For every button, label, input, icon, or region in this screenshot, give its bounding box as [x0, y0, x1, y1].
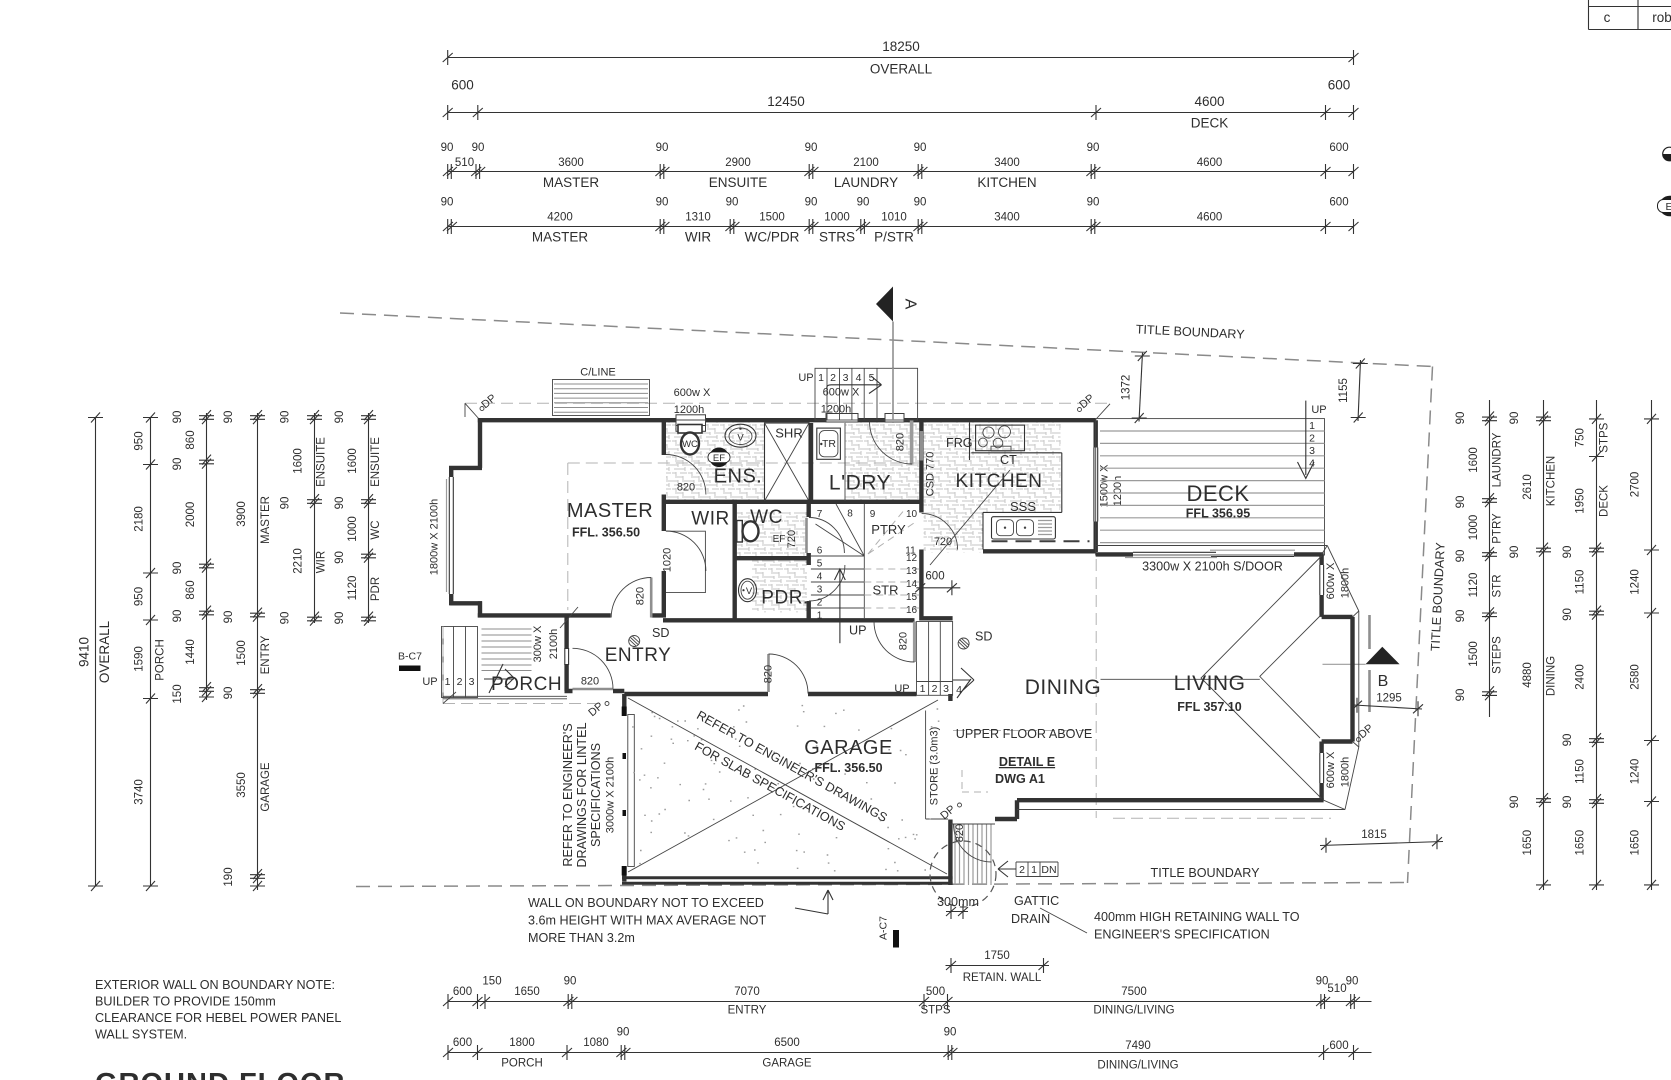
svg-text:4: 4 [817, 572, 823, 583]
tile hatch ensuite floor [666, 423, 764, 502]
garage east wall + store [926, 694, 951, 885]
svg-text:PDR: PDR [370, 577, 382, 601]
svg-text:4600: 4600 [1194, 94, 1224, 109]
svg-text:A-C7: A-C7 [878, 916, 890, 940]
bottom dim row 600/1800 PORCH/1080/90/6500 GARAGE/90/7490 DINING-LIVING/600 [443, 1027, 1372, 1072]
title block table fragment (top right) [1589, 0, 1671, 30]
kitchen east wall w/ window [1094, 420, 1124, 552]
left dim chain 90/1600 ENSUITE/90/2210 WIR/90 [280, 410, 328, 625]
svg-text:2100h: 2100h [548, 629, 560, 660]
svg-text:150: 150 [172, 684, 184, 703]
fridge niche [946, 423, 973, 461]
master bay walls [450, 466, 482, 606]
wc west wall [733, 500, 737, 621]
kitchen diagonal (section line) [930, 470, 1010, 565]
svg-text:2: 2 [932, 683, 938, 695]
laundry door swing [870, 420, 914, 464]
labels ensuite window [674, 387, 711, 416]
detail circle (dashed) [930, 841, 996, 907]
DP marker kitchen corner [1077, 392, 1096, 411]
svg-text:90: 90 [617, 1027, 630, 1039]
svg-text:820: 820 [581, 676, 599, 688]
svg-text:12450: 12450 [767, 94, 805, 109]
svg-text:WALL ON BOUNDARY NOT TO EXCEED: WALL ON BOUNDARY NOT TO EXCEED [528, 896, 764, 910]
svg-text:90: 90 [857, 197, 870, 209]
detail E note [962, 755, 1055, 792]
dim row 600 12450 4600 DECK 600 [443, 78, 1359, 131]
svg-text:OVERALL: OVERALL [870, 62, 933, 77]
wc door 720 swing [786, 518, 844, 554]
svg-text:FFL. 356.50: FFL. 356.50 [572, 526, 640, 540]
svg-text:90: 90 [1455, 412, 1467, 425]
DP marker entry/garage [586, 700, 609, 719]
svg-text:2400: 2400 [1575, 664, 1587, 690]
svg-text:4600: 4600 [1197, 212, 1223, 224]
svg-text:9410: 9410 [77, 637, 92, 667]
svg-text:90: 90 [334, 497, 346, 510]
garage internal door 820 swing [763, 654, 809, 694]
garage concrete dot hatch [632, 706, 939, 871]
svg-text:90: 90 [1509, 412, 1521, 425]
stair bottom wall [663, 618, 915, 622]
svg-text:STR: STR [1492, 575, 1504, 598]
svg-text:ENSUITE: ENSUITE [316, 437, 328, 487]
svg-text:LAUNDRY: LAUNDRY [1492, 432, 1504, 487]
svg-text:600w X: 600w X [1325, 751, 1337, 788]
svg-text:9: 9 [870, 509, 876, 520]
svg-text:FFL 357.10: FFL 357.10 [1177, 700, 1241, 714]
svg-text:1800w X 2100h: 1800w X 2100h [429, 499, 441, 575]
svg-text:MORE THAN 3.2m: MORE THAN 3.2m [528, 931, 635, 945]
svg-text:1: 1 [1309, 420, 1315, 432]
svg-text:600: 600 [1328, 78, 1351, 93]
living east wall upper w/ window [1320, 554, 1352, 617]
laundry west wall [809, 423, 813, 501]
svg-text:SPECIFICATIONS: SPECIFICATIONS [589, 743, 603, 847]
svg-text:3.6m HEIGHT WITH MAX AVERAGE N: 3.6m HEIGHT WITH MAX AVERAGE NOT [528, 914, 766, 928]
svg-text:90: 90 [334, 612, 346, 625]
svg-text:90: 90 [280, 411, 292, 424]
svg-text:1240: 1240 [1630, 759, 1642, 785]
svg-text:600w X: 600w X [823, 387, 860, 399]
section marker B (filled triangle + line) [1323, 615, 1400, 712]
ensuite door 820 swing [666, 455, 706, 495]
svg-text:TR: TR [822, 438, 836, 450]
svg-text:90: 90 [1455, 610, 1467, 623]
svg-text:FFL 356.95: FFL 356.95 [1186, 507, 1250, 521]
room label living [1174, 672, 1246, 714]
svg-text:FRG: FRG [946, 436, 973, 450]
right dim chain 750 STPS/1950 DECK/90/1150/90/2400/90/1150/90/1650 [1562, 400, 1611, 890]
svg-text:90: 90 [564, 976, 577, 988]
dim 1155 (boundary to deck right) [1338, 359, 1368, 423]
svg-text:PTRY: PTRY [1492, 513, 1504, 544]
svg-text:2: 2 [1019, 864, 1025, 876]
svg-text:CSD 770: CSD 770 [925, 452, 937, 497]
roof eave dashed line top [465, 403, 1110, 419]
svg-text:7500: 7500 [1121, 986, 1147, 998]
upper floor above dashed outline [568, 463, 1331, 818]
svg-text:UP: UP [1311, 404, 1326, 416]
dining north wall + sliding door [1096, 550, 1324, 573]
svg-text:DINING/LIVING: DINING/LIVING [1093, 1005, 1174, 1017]
svg-text:MASTER: MASTER [532, 230, 589, 245]
svg-text:1200h: 1200h [674, 404, 705, 416]
svg-text:SD: SD [975, 630, 993, 644]
svg-text:90: 90 [223, 687, 235, 700]
svg-text:1000: 1000 [1468, 515, 1480, 541]
steps garage to dining hatch + door [950, 824, 995, 885]
svg-text:PTRY: PTRY [871, 522, 906, 537]
svg-text:18250: 18250 [882, 39, 920, 54]
svg-text:3: 3 [469, 676, 475, 688]
kitchen west wall w/ csd + pantry door [919, 420, 952, 618]
left dim chain 9410 OVERALL [77, 413, 113, 892]
svg-text:13: 13 [906, 566, 918, 577]
north symbol (half-filled circle, clipped at edge) [1663, 147, 1671, 161]
svg-text:3: 3 [843, 372, 849, 384]
svg-text:1: 1 [920, 683, 926, 695]
svg-text:2: 2 [1309, 433, 1315, 445]
svg-text:950: 950 [134, 431, 146, 450]
svg-text:90: 90 [656, 142, 669, 154]
svg-text:1590: 1590 [134, 646, 146, 672]
svg-text:600: 600 [1329, 142, 1348, 154]
dim 1295 (living wall to boundary) [1352, 693, 1423, 717]
smoke detector entry [629, 626, 670, 647]
tile hatch wc floor [737, 512, 807, 556]
svg-text:1372: 1372 [1121, 375, 1133, 401]
porch floor hatch [482, 629, 532, 671]
svg-text:STPS: STPS [1599, 422, 1611, 452]
deck outline + planks [1096, 419, 1325, 555]
svg-text:7070: 7070 [734, 986, 760, 998]
svg-text:REFER TO ENGINEER'S: REFER TO ENGINEER'S [561, 723, 575, 866]
svg-text:600: 600 [453, 986, 472, 998]
svg-text:WIR: WIR [316, 551, 328, 573]
svg-text:ENTRY: ENTRY [605, 645, 672, 666]
svg-text:DINING: DINING [1025, 676, 1102, 699]
svg-text:GARAGE: GARAGE [762, 1058, 812, 1070]
svg-text:DETAIL E: DETAIL E [999, 755, 1055, 769]
tile hatch kitchen floor [924, 423, 1061, 513]
exterior wall top [478, 418, 1096, 422]
garage slab diagonals + note [628, 698, 947, 874]
svg-text:90: 90 [1087, 197, 1100, 209]
svg-text:WC: WC [682, 439, 698, 450]
svg-text:DINING: DINING [1546, 656, 1558, 696]
smoke detector hall [958, 630, 992, 650]
vanity V pdr [739, 579, 757, 602]
svg-text:B: B [1378, 673, 1389, 690]
svg-text:150: 150 [482, 976, 501, 988]
svg-text:3000w X 2100h: 3000w X 2100h [605, 757, 617, 833]
ensuite/laundry south wall [662, 500, 922, 504]
kitchen island dashed overhang [992, 540, 1090, 542]
svg-text:2: 2 [817, 598, 823, 609]
svg-text:LAUNDRY: LAUNDRY [834, 175, 898, 190]
svg-text:1080: 1080 [583, 1037, 609, 1049]
svg-text:DECK: DECK [1599, 485, 1611, 517]
svg-text:c: c [1604, 10, 1611, 25]
retaining wall note [1040, 908, 1300, 942]
svg-text:ENTRY: ENTRY [260, 635, 272, 674]
roof ridge chevrons living [1101, 556, 1322, 798]
svg-text:SSS: SSS [1010, 499, 1036, 514]
svg-text:3740: 3740 [134, 779, 146, 805]
garage west wall w/ garage door [605, 694, 635, 882]
wir closet outline [666, 531, 706, 592]
svg-text:6500: 6500 [774, 1037, 800, 1049]
svg-text:ENTRY: ENTRY [728, 1005, 767, 1017]
svg-text:15: 15 [906, 592, 918, 603]
svg-text:1155: 1155 [1338, 378, 1350, 403]
svg-text:PORCH: PORCH [501, 1058, 543, 1070]
svg-text:1000: 1000 [347, 516, 359, 542]
section A cut line through steps [892, 368, 894, 420]
right dim chain 2700/1240/2580/1240/1650 [1630, 400, 1660, 890]
svg-text:SHR: SHR [775, 426, 802, 441]
svg-text:KITCHEN: KITCHEN [977, 175, 1036, 190]
svg-text:ENS.: ENS. [714, 466, 763, 488]
svg-text:1750: 1750 [984, 950, 1010, 962]
svg-text:WC: WC [370, 520, 382, 539]
tile hatch laundry floor [845, 423, 920, 502]
svg-text:1: 1 [1031, 864, 1037, 876]
DP marker living bay [1356, 722, 1375, 741]
svg-text:4200: 4200 [547, 212, 573, 224]
stair upper run dashed treads [864, 569, 919, 608]
left dim chain 90/3900 MASTER/90/1500 ENTRY/90/3550 GARAGE/190 [223, 410, 272, 891]
svg-text:1650: 1650 [514, 986, 540, 998]
svg-text:90: 90 [1509, 546, 1521, 559]
svg-text:STORE (3.0m3): STORE (3.0m3) [929, 727, 941, 806]
svg-text:510: 510 [1327, 983, 1346, 995]
svg-text:KITCHEN: KITCHEN [956, 471, 1043, 492]
svg-text:KITCHEN: KITCHEN [1546, 456, 1558, 506]
svg-text:ENSUITE: ENSUITE [370, 437, 382, 487]
svg-text:90: 90 [172, 610, 184, 623]
svg-text:C/LINE: C/LINE [580, 367, 615, 379]
svg-text:90: 90 [656, 197, 669, 209]
svg-text:400mm HIGH RETAINING WALL TO: 400mm HIGH RETAINING WALL TO [1094, 910, 1300, 924]
svg-text:90: 90 [441, 142, 454, 154]
svg-text:1: 1 [445, 676, 451, 688]
laundry tiled edge [844, 423, 846, 501]
svg-text:1500: 1500 [1468, 641, 1480, 667]
left dim chain 90/1600 ENSUITE/90/1000 WC/90/1120 PDR/90 [334, 410, 382, 625]
stair west wall w/ wc+pdr doors [807, 500, 811, 622]
svg-text:1500w X: 1500w X [1099, 464, 1111, 507]
svg-text:E: E [1665, 201, 1671, 213]
garage boundary wall note [528, 890, 833, 945]
svg-text:DN: DN [1041, 864, 1056, 876]
dim row 90/510/3600 MASTER/2900 ENSUITE/2100 LAUNDRY/3400 KITCHEN/4600/600 [441, 142, 1359, 190]
svg-text:UP: UP [422, 676, 437, 688]
svg-text:90: 90 [172, 562, 184, 575]
svg-text:1150: 1150 [1575, 570, 1587, 595]
svg-text:EF: EF [773, 534, 786, 545]
kitchen bench edges [971, 453, 1062, 550]
svg-text:2610: 2610 [1522, 474, 1534, 500]
svg-text:90: 90 [1346, 976, 1359, 988]
svg-text:90: 90 [1562, 546, 1574, 559]
svg-text:2700: 2700 [1630, 472, 1642, 498]
svg-text:90: 90 [223, 611, 235, 624]
svg-text:CT: CT [1000, 453, 1017, 467]
garage south boundary wall (double) [622, 878, 953, 884]
svg-text:820: 820 [898, 632, 910, 650]
svg-text:600: 600 [925, 571, 944, 583]
svg-text:90: 90 [172, 411, 184, 424]
svg-text:90: 90 [1455, 550, 1467, 563]
svg-text:820: 820 [895, 433, 907, 451]
svg-text:1800h: 1800h [1340, 757, 1352, 788]
svg-text:1800: 1800 [509, 1037, 535, 1049]
svg-text:90: 90 [1562, 608, 1574, 621]
svg-text:12: 12 [906, 553, 918, 564]
stair treads lower run [811, 556, 864, 608]
svg-text:90: 90 [726, 197, 739, 209]
vanity V ensuite [725, 424, 756, 447]
south wall dining/living [1017, 798, 1324, 802]
tile hatch pdr floor [752, 561, 807, 613]
cooktop CT [976, 425, 1025, 467]
external entry steps box [798, 368, 917, 420]
svg-text:3400: 3400 [994, 157, 1020, 169]
svg-text:DRAIN: DRAIN [1011, 912, 1050, 926]
svg-text:860: 860 [185, 430, 197, 449]
hall door to dining swing [874, 622, 916, 663]
svg-text:1600: 1600 [293, 448, 305, 474]
svg-text:EXTERIOR WALL ON BOUNDARY NOTE: EXTERIOR WALL ON BOUNDARY NOTE: [95, 978, 335, 992]
svg-text:TITLE BOUNDARY: TITLE BOUNDARY [1151, 866, 1261, 880]
kitchen south bench front [983, 549, 1096, 553]
svg-text:P/STR: P/STR [874, 230, 914, 245]
svg-text:820: 820 [954, 824, 966, 842]
svg-text:90: 90 [172, 458, 184, 471]
master bay window 1800w [429, 477, 454, 594]
master door 820 swing [611, 578, 651, 618]
svg-text:1310: 1310 [685, 212, 711, 224]
svg-text:1020: 1020 [662, 548, 674, 572]
laundry tub TR [817, 428, 841, 459]
dim 600 stair opening [915, 571, 960, 596]
stair up arrow [835, 569, 867, 643]
svg-text:300mm: 300mm [937, 895, 979, 909]
left dim chain 90/860/90/2000/90/860/90/1440/150 [172, 410, 214, 703]
internal steps to dining 1 2 3 [894, 622, 974, 699]
svg-text:WC/PDR: WC/PDR [745, 230, 800, 245]
section marker A (filled flag + line) [876, 287, 919, 369]
porch south edge [443, 627, 567, 699]
svg-text:2: 2 [830, 372, 836, 384]
title boundary top (dashed) [340, 313, 1433, 367]
window sills at external steps [826, 414, 904, 423]
svg-text:6: 6 [817, 546, 823, 557]
electrical symbol E (clipped at edge) [1658, 196, 1671, 217]
svg-text:1650: 1650 [1630, 830, 1642, 856]
svg-text:3: 3 [1309, 445, 1315, 457]
svg-text:1650: 1650 [1522, 830, 1534, 856]
svg-text:1010: 1010 [881, 212, 907, 224]
svg-text:UP: UP [894, 683, 909, 695]
svg-text:DRAWINGS FOR LINTEL: DRAWINGS FOR LINTEL [575, 722, 589, 867]
svg-text:10: 10 [906, 509, 918, 520]
svg-text:4600: 4600 [1197, 157, 1223, 169]
svg-text:MASTER: MASTER [567, 500, 653, 522]
deck label [1186, 481, 1250, 521]
svg-text:MASTER: MASTER [543, 175, 600, 190]
svg-text:RETAIN. WALL: RETAIN. WALL [963, 972, 1042, 984]
eave outline around bay [1017, 546, 1359, 810]
svg-text:2180: 2180 [134, 506, 146, 532]
gattic drain label [937, 894, 1059, 926]
svg-text:2: 2 [457, 676, 463, 688]
clothesline [553, 367, 650, 416]
living east wall lower w/ window [1320, 742, 1352, 801]
svg-text:2900: 2900 [725, 157, 751, 169]
pantry door 720 swing [922, 514, 958, 550]
garage room label [804, 737, 893, 775]
svg-text:90: 90 [1455, 496, 1467, 509]
svg-text:90: 90 [805, 197, 818, 209]
svg-text:600w X: 600w X [674, 387, 711, 399]
svg-text:4: 4 [856, 372, 862, 384]
svg-text:WIR: WIR [691, 509, 729, 530]
section marker B-C7 [398, 651, 422, 672]
svg-text:90: 90 [441, 197, 454, 209]
svg-text:GATTIC: GATTIC [1014, 894, 1059, 908]
svg-text:720: 720 [786, 530, 798, 548]
dim 1815 (south wall to boundary) [1320, 829, 1443, 853]
svg-text:500: 500 [926, 986, 945, 998]
svg-text:1240: 1240 [1630, 569, 1642, 595]
svg-text:SD: SD [652, 626, 670, 640]
svg-text:1500: 1500 [759, 212, 785, 224]
svg-text:90: 90 [334, 551, 346, 564]
living bay walls [1322, 617, 1353, 742]
svg-text:820: 820 [635, 587, 647, 605]
svg-text:STPS: STPS [920, 1005, 950, 1017]
master east wall / ensuite west wall [662, 420, 666, 617]
svg-text:ENGINEER'S SPECIFICATION: ENGINEER'S SPECIFICATION [1094, 928, 1270, 942]
svg-text:1650: 1650 [1575, 830, 1587, 856]
title boundary bottom (dashed) [356, 883, 1408, 887]
svg-text:190: 190 [223, 867, 235, 886]
svg-text:14: 14 [906, 579, 918, 590]
pdr door swing [809, 565, 845, 601]
svg-text:600w X: 600w X [1325, 562, 1337, 599]
svg-text:510: 510 [455, 157, 474, 169]
toilet WC ensuite [678, 425, 702, 455]
svg-text:90: 90 [914, 142, 927, 154]
title boundary right (dashed) [1408, 367, 1433, 884]
sink SSS [992, 499, 1056, 539]
svg-text:4: 4 [956, 684, 962, 696]
svg-text:DWG A1: DWG A1 [995, 772, 1045, 786]
svg-text:1000: 1000 [824, 212, 850, 224]
shower SHR [765, 423, 810, 501]
entry south wall w/ front door [565, 689, 625, 693]
wir door swing [662, 531, 706, 572]
right dim chain 90/2610 KITCHEN/90/4880 DINING/90/1650 [1509, 400, 1558, 890]
svg-text:3550: 3550 [236, 772, 248, 798]
svg-text:2000: 2000 [185, 502, 197, 528]
svg-text:GROUND FLOOR: GROUND FLOOR [95, 1068, 345, 1080]
svg-text:820: 820 [677, 482, 695, 494]
window ensuite north 600w [676, 415, 706, 432]
